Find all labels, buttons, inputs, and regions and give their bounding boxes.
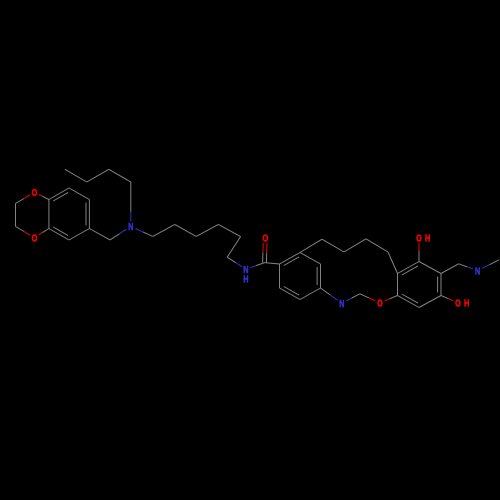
svg-text:O: O xyxy=(32,187,38,198)
C=O double left C half xyxy=(262,253,264,263)
svg-text:O: O xyxy=(377,297,383,308)
right ring inner rTR-rBR xyxy=(437,277,439,293)
central ring edge L6-L1 xyxy=(279,264,281,288)
central ring inner B5-L6 xyxy=(284,287,299,296)
bond rBR-OH2 phenol (half A) xyxy=(441,296,449,299)
svg-text:N: N xyxy=(128,221,133,232)
bond C3-O4 dioxane (half B) xyxy=(24,232,30,236)
bond H6-NA hexyl to amide N (half A) xyxy=(227,257,235,262)
benzene A edge C7-C6 xyxy=(69,188,89,200)
C=O double right O half xyxy=(266,243,268,253)
bond NA-C1p amide (half B) xyxy=(256,263,264,266)
bond C1p-L1 to central ring xyxy=(265,263,280,264)
bond O4-C4a dioxane (half B) xyxy=(42,229,49,233)
right ring edge rBR-rB xyxy=(419,296,441,308)
bond H1-H2 hexyl xyxy=(153,224,175,236)
bond O1-C2 dioxane (half B) xyxy=(16,199,25,204)
bond H6-NA hexyl to amide N (half B) xyxy=(236,263,242,267)
bond P1-P2 pentyl xyxy=(87,169,109,182)
benzene A inner C8a-C7 xyxy=(53,192,68,201)
bond rTR-X2 xyxy=(441,264,459,274)
bond N5-V2 pentyl (half A) xyxy=(130,212,132,222)
svg-text:H: H xyxy=(243,273,248,284)
bond U2-U3 bridge xyxy=(344,239,366,252)
right ring inner rTL-rT xyxy=(402,266,418,275)
bond H2-H3 hexyl xyxy=(175,224,196,236)
bond T2-U1 bridge xyxy=(300,239,322,252)
central ring edge L1-T2 xyxy=(280,253,301,265)
benzene A edge C4b-C4a xyxy=(49,229,69,241)
bond N5-H1 hexyl (half A) xyxy=(135,229,143,232)
bond C5-C11 benzylic xyxy=(89,229,110,240)
svg-text:N: N xyxy=(475,265,480,276)
bond V1-P1 pentyl xyxy=(109,169,131,182)
right ring edge rTR-rBR xyxy=(440,274,442,296)
C=O double right C half xyxy=(265,253,267,263)
benzene A fused edge C4a-C8a xyxy=(48,200,50,229)
benzene A inner C4b-C4a xyxy=(53,227,68,236)
right ring edge rBL-rTL xyxy=(397,274,399,296)
bond H5-H6 hexyl xyxy=(227,237,240,258)
svg-text:H: H xyxy=(464,297,469,308)
right ring edge rT-rTR xyxy=(419,262,441,274)
bond rBR-OH2 phenol (half B) xyxy=(449,299,454,301)
right ring inner rB-rBL xyxy=(402,294,418,303)
right ring edge rTL-rT xyxy=(398,262,420,274)
bond C11-N5 (half A) xyxy=(110,234,119,240)
svg-text:O: O xyxy=(455,297,461,308)
bond H4-H5 hexyl xyxy=(218,224,240,236)
bond V2-V1 pentyl xyxy=(130,182,132,200)
bond C2-C3 dioxane xyxy=(15,204,17,227)
central ring edge B5-L6 xyxy=(280,288,301,300)
bond X2-N10 (half B) xyxy=(467,267,473,269)
central ring inner R3-R4 xyxy=(316,267,318,285)
C=O double left O half xyxy=(262,243,264,253)
svg-text:O: O xyxy=(416,232,422,243)
bond U1-U2 bridge xyxy=(322,239,344,252)
bond R4-N6 (half B) xyxy=(330,295,338,301)
central ring inner L1-T2 xyxy=(284,257,299,266)
bond X2-N10 (half A) xyxy=(459,264,468,267)
bond O1-C8a dioxane (half A) xyxy=(39,195,42,197)
bond C3-O4 dioxane (half A) xyxy=(16,227,25,232)
bond O1-C2 dioxane (half A) xyxy=(24,195,30,199)
svg-text:H: H xyxy=(425,232,430,243)
benzene A edge C8a-C7 xyxy=(49,188,69,200)
bond X1-O7 (half A) xyxy=(360,294,369,298)
bond N10-M1 methyl (half B) xyxy=(489,260,499,265)
bond X1-O7 (half B) xyxy=(369,298,376,301)
bond P2-P3 pentyl xyxy=(65,169,87,182)
bond NA-C1p amide (half A) xyxy=(251,266,257,268)
svg-text:N: N xyxy=(339,298,344,309)
bond N6-X1 (half A) xyxy=(346,298,352,301)
bond O7-rBL (half A) xyxy=(385,299,390,301)
central ring edge T2-R3 xyxy=(300,253,321,265)
central ring edge R4-B5 xyxy=(300,288,321,300)
bond N5-V2 pentyl (half B) xyxy=(130,200,132,212)
bond rT-OH1 phenol (half A) xyxy=(418,251,420,262)
bond N10-M1 methyl (half A) xyxy=(482,265,489,269)
benzene A inner C6-C5 xyxy=(85,203,87,226)
bond R4-N6 (half A) xyxy=(321,288,331,295)
svg-text:O: O xyxy=(262,232,268,243)
bond H3-H4 hexyl xyxy=(196,224,218,236)
benzene A edge C6-C5 xyxy=(88,200,90,229)
bond O4-C4a dioxane (half A) xyxy=(39,233,43,235)
benzene A edge C5-C4b xyxy=(69,229,89,241)
bond U4-rTL bridge xyxy=(388,252,398,274)
bond O1-C8a dioxane (half B) xyxy=(42,196,49,199)
right ring edge rB-rBL xyxy=(398,296,420,308)
bond rT-OH1 phenol (half B) xyxy=(418,243,420,251)
bond N5-H1 hexyl (half B) xyxy=(143,232,153,237)
bond N6-X1 (half B) xyxy=(352,294,360,298)
bond O7-rBL (half B) xyxy=(390,296,398,299)
bond U3-U4 bridge xyxy=(366,239,388,252)
svg-text:O: O xyxy=(32,232,38,243)
central ring edge R3-R4 xyxy=(320,264,322,288)
bond C11-N5 (half B) xyxy=(119,229,126,234)
